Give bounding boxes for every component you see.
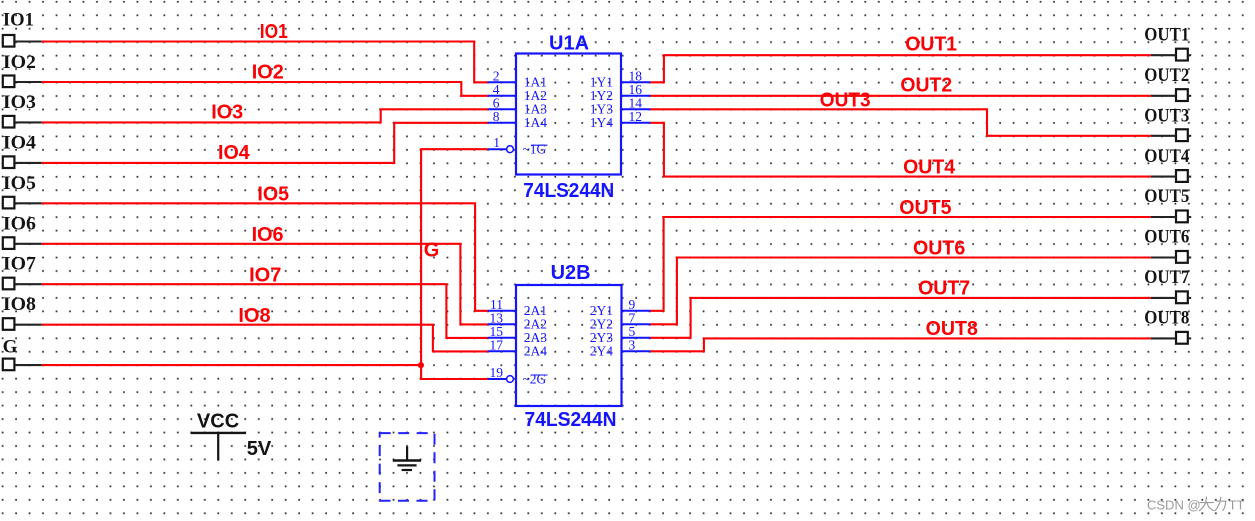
port IO7	[3, 254, 42, 290]
wire net IO5	[42, 203, 488, 310]
U2B pin name 2A2	[524, 317, 547, 332]
U2B pin 5 stub	[622, 337, 651, 339]
svg-text:1A4: 1A4	[524, 115, 547, 130]
svg-text:IO6: IO6	[3, 213, 36, 234]
U1A pin number 12	[629, 109, 643, 124]
U1A pin name 1Y3	[590, 102, 613, 117]
net label OUT2	[900, 74, 952, 96]
power VCC value 5V	[247, 438, 272, 460]
port OUT5	[1144, 186, 1191, 222]
net label IO4	[218, 142, 251, 164]
svg-text:2A4: 2A4	[524, 344, 547, 359]
IC U1A body	[516, 54, 621, 175]
net label IO3	[211, 102, 243, 124]
U1A pin name 1Y2	[590, 88, 613, 103]
net label IO2	[252, 61, 284, 83]
junction dot net G	[418, 362, 424, 368]
svg-text:OUT5: OUT5	[899, 197, 951, 219]
wire net OUT8	[650, 338, 1151, 351]
svg-text:OUT3: OUT3	[820, 89, 871, 111]
U1A pin number 14	[629, 95, 643, 110]
U1A pin name 1Y1	[590, 75, 613, 90]
U2B pin 17 stub	[488, 350, 516, 352]
svg-text:VCC: VCC	[197, 411, 239, 433]
port G	[3, 337, 42, 371]
svg-text:OUT2: OUT2	[900, 74, 952, 96]
svg-text:74LS244N: 74LS244N	[525, 409, 617, 431]
svg-text:OUT6: OUT6	[913, 238, 965, 260]
IC U2B designator	[551, 262, 591, 284]
svg-text:IO8: IO8	[238, 305, 270, 327]
net label G	[424, 240, 440, 262]
U2B pin name 2G active-low	[523, 371, 548, 386]
port OUT1	[1144, 24, 1191, 60]
U1A pin 8 stub	[488, 122, 516, 124]
net label IO1	[260, 21, 288, 43]
net label IO7	[249, 264, 281, 286]
U2B pin number 15	[490, 324, 504, 339]
svg-text:IO6: IO6	[252, 224, 284, 246]
svg-text:OUT5: OUT5	[1144, 186, 1189, 207]
U2B pin name 2A3	[524, 330, 547, 345]
U1A pin 1 stub with bubble	[488, 146, 514, 153]
IC U1A designator	[549, 33, 589, 55]
U2B pin number 13	[490, 310, 504, 325]
power VCC label	[197, 411, 239, 433]
net label IO8	[238, 305, 270, 327]
svg-text:CSDN @: CSDN @	[1147, 498, 1201, 513]
svg-text:IO4: IO4	[218, 142, 251, 164]
svg-text:IO3: IO3	[211, 102, 243, 124]
U2B pin number 3	[629, 337, 636, 352]
svg-text:U2B: U2B	[551, 262, 591, 284]
wire net IO1	[42, 42, 488, 83]
U1A pin number 8	[493, 109, 500, 124]
port OUT4	[1144, 146, 1191, 182]
svg-text:IO2: IO2	[252, 61, 284, 83]
svg-text:U1A: U1A	[549, 33, 589, 55]
svg-text:OUT6: OUT6	[1144, 227, 1189, 248]
svg-text:IO2: IO2	[3, 52, 36, 73]
svg-text:OUT3: OUT3	[1144, 105, 1189, 126]
svg-text:3: 3	[629, 337, 636, 352]
U2B pin name 2Y1	[590, 303, 613, 318]
svg-text:OUT1: OUT1	[905, 34, 957, 56]
U1A pin 6 stub	[488, 108, 516, 110]
U2B pin 7 stub	[622, 323, 651, 325]
U2B pin 11 stub	[488, 310, 516, 312]
IC U2B value 74LS244N	[525, 409, 617, 431]
U1A pin name 1A3	[524, 102, 547, 117]
net label IO6	[252, 224, 284, 246]
port IO1	[3, 10, 42, 47]
svg-text:IO7: IO7	[249, 264, 281, 286]
svg-text:1Y4: 1Y4	[590, 115, 613, 130]
U2B pin number 5	[629, 324, 636, 339]
svg-text:IO5: IO5	[3, 173, 36, 194]
svg-text:OUT8: OUT8	[926, 318, 978, 340]
svg-text:OUT2: OUT2	[1144, 65, 1189, 86]
svg-text:OUT7: OUT7	[1144, 267, 1189, 288]
net label IO5	[257, 184, 289, 206]
wire net OUT2	[650, 95, 1151, 97]
port IO4	[3, 132, 42, 168]
U1A pin number 2	[493, 68, 500, 83]
svg-text:G: G	[3, 337, 18, 358]
U2B pin name 2A4	[524, 344, 547, 359]
wire net G vertical and to pins 1,19	[421, 149, 488, 379]
net label OUT8	[926, 318, 978, 340]
net label OUT4	[903, 157, 956, 179]
port IO8	[3, 294, 42, 330]
svg-text:~2G: ~2G	[523, 371, 547, 386]
U2B pin 9 stub	[622, 310, 651, 312]
svg-text:OUT1: OUT1	[1144, 24, 1189, 45]
wire net IO8	[42, 325, 488, 352]
wire net OUT1	[650, 55, 1151, 82]
U1A pin name 1A4	[524, 115, 547, 130]
U2B pin number 9	[629, 297, 636, 312]
U1A pin 14 stub	[621, 108, 650, 110]
svg-text:12: 12	[629, 109, 643, 124]
net label OUT6	[913, 238, 965, 260]
U1A pin name 1Y4	[590, 115, 613, 130]
U2B pin number 11	[490, 297, 503, 312]
U1A pin 4 stub	[488, 95, 516, 97]
U1A pin name 1A2	[524, 88, 547, 103]
wire net IO6	[42, 244, 488, 325]
svg-text:8: 8	[493, 109, 500, 124]
U2B pin 13 stub	[488, 323, 516, 325]
U2B pin number 17	[490, 337, 504, 352]
svg-text:OUT4: OUT4	[1144, 146, 1189, 167]
net label OUT3	[820, 89, 871, 111]
svg-text:IO5: IO5	[257, 184, 289, 206]
wire net IO2	[42, 82, 488, 96]
port OUT8	[1144, 308, 1191, 344]
svg-text:IO8: IO8	[3, 294, 36, 315]
ground symbol	[393, 447, 421, 471]
svg-text:~1G: ~1G	[523, 142, 547, 157]
U1A pin number 6	[493, 95, 500, 110]
svg-text:2Y4: 2Y4	[590, 344, 613, 359]
U1A pin number 4	[493, 82, 500, 97]
U2B pin 19 stub with bubble	[488, 376, 514, 383]
U2B pin name 2Y3	[590, 330, 613, 345]
U2B pin number 7	[629, 310, 636, 325]
U2B pin name 2Y2	[590, 317, 613, 332]
U1A pin number 1	[493, 135, 500, 150]
IC U1A value 74LS244N	[523, 180, 614, 202]
wire net G horizontal from port	[42, 364, 422, 366]
svg-text:IO3: IO3	[3, 92, 36, 113]
power VCC bar symbol	[191, 433, 246, 461]
svg-text:IO7: IO7	[3, 254, 37, 275]
U2B pin number 19	[490, 365, 504, 380]
port OUT3	[1144, 105, 1191, 141]
port IO2	[3, 52, 42, 87]
U2B pin 15 stub	[488, 337, 516, 339]
IC U2B body	[516, 285, 622, 406]
svg-text:IO1: IO1	[260, 21, 288, 43]
net label OUT5	[899, 197, 951, 219]
wire net OUT7	[650, 298, 1151, 338]
watermark CSDN	[1147, 497, 1245, 513]
U1A pin 18 stub	[621, 81, 650, 83]
U1A pin number 16	[629, 82, 643, 97]
net label OUT1	[905, 34, 957, 56]
port IO3	[3, 92, 42, 128]
port IO5	[3, 173, 42, 209]
svg-text:1: 1	[493, 135, 500, 150]
U1A pin name 1A1	[524, 75, 547, 90]
U2B pin name 2A1	[524, 303, 547, 318]
wire net IO7	[42, 284, 488, 338]
net label OUT7	[918, 278, 970, 300]
U2B pin 3 stub	[622, 350, 651, 352]
svg-text:IO4: IO4	[3, 132, 37, 153]
port IO6	[3, 213, 42, 249]
svg-text:OUT4: OUT4	[903, 157, 956, 179]
U1A pin number 18	[629, 68, 643, 83]
ground symbol selection box	[380, 433, 435, 501]
wire net OUT4	[650, 123, 1151, 177]
svg-text:74LS244N: 74LS244N	[523, 180, 614, 202]
port OUT6	[1144, 227, 1191, 263]
wire net IO4	[42, 123, 488, 163]
wire net OUT3	[650, 109, 1151, 136]
svg-text:OUT8: OUT8	[1144, 308, 1189, 329]
svg-text:5V: 5V	[247, 438, 272, 460]
port OUT7	[1144, 267, 1191, 303]
svg-text:TT: TT	[1229, 498, 1245, 513]
svg-text:G: G	[424, 240, 440, 262]
wire net IO3	[42, 109, 488, 122]
svg-text:17: 17	[490, 337, 504, 352]
U1A pin 12 stub	[621, 122, 650, 124]
svg-text:IO1: IO1	[3, 10, 34, 31]
U1A pin name 1G active-low	[523, 142, 548, 157]
U1A pin 16 stub	[621, 95, 650, 97]
U1A pin 2 stub	[488, 81, 516, 83]
wire net OUT6	[650, 258, 1151, 325]
wire net OUT5	[650, 217, 1151, 311]
svg-text:OUT7: OUT7	[918, 278, 970, 300]
U2B pin name 2Y4	[590, 344, 613, 359]
port OUT2	[1144, 65, 1191, 101]
svg-text:19: 19	[490, 365, 504, 380]
